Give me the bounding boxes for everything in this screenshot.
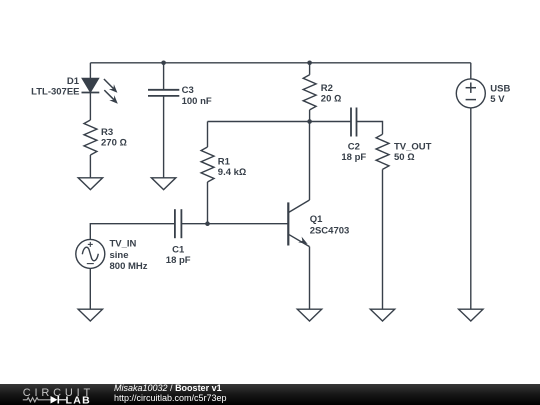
svg-text:270 Ω: 270 Ω	[101, 137, 127, 148]
wire mid rail	[208, 121, 352, 123]
svg-text:D1: D1	[67, 76, 80, 87]
LED emission arrow 2	[104, 90, 114, 100]
svg-text:R1: R1	[218, 156, 231, 167]
capacitor C1	[175, 209, 182, 238]
svg-text:5 V: 5 V	[490, 94, 505, 105]
resistor TV_OUT	[376, 134, 389, 169]
capacitor C2	[351, 108, 357, 137]
CircuitLab logo	[0, 384, 100, 405]
wire top rail corner to USB	[470, 63, 472, 79]
wire R1 bottom lead	[207, 182, 209, 224]
svg-text:C2: C2	[348, 141, 360, 152]
wire LED anode	[89, 63, 91, 79]
ground below R3	[78, 178, 102, 190]
svg-text:LAB: LAB	[66, 395, 91, 405]
resistor R3	[84, 120, 97, 155]
resistor R2	[303, 75, 316, 110]
svg-text:USB: USB	[490, 83, 510, 94]
svg-text:2SC4703: 2SC4703	[310, 226, 350, 237]
wire top rail	[90, 62, 470, 64]
svg-text:R3: R3	[101, 127, 113, 138]
wire TV_IN top lead	[90, 224, 174, 240]
wire C1 to Q1 base	[181, 223, 288, 225]
wire collector	[309, 122, 311, 201]
svg-text:C3: C3	[182, 85, 194, 96]
svg-text:TV_OUT: TV_OUT	[394, 141, 432, 152]
svg-text:100 nF: 100 nF	[182, 96, 212, 107]
footer bar	[0, 384, 540, 405]
svg-text:Q1: Q1	[310, 214, 323, 225]
wire TV_IN to ground	[89, 268, 91, 309]
svg-text:800 MHz: 800 MHz	[110, 261, 148, 272]
svg-text:18 pF: 18 pF	[341, 152, 366, 163]
voltage source USB	[456, 79, 485, 108]
svg-text:TV_IN: TV_IN	[110, 239, 137, 250]
svg-text:18 pF: 18 pF	[166, 255, 191, 266]
sine wave in TV_IN	[82, 247, 98, 261]
wire R2 top lead	[309, 63, 311, 75]
resistor R1	[201, 147, 214, 182]
diode D1 (LED)	[82, 61, 312, 245]
transistor Q1	[287, 202, 289, 245]
svg-text:20 Ω: 20 Ω	[321, 94, 342, 105]
wire R2 bottom lead	[309, 110, 311, 122]
svg-text:sine: sine	[110, 250, 129, 261]
svg-text:R2: R2	[321, 83, 333, 94]
svg-text:LTL-307EE: LTL-307EE	[31, 86, 79, 97]
wire LED cathode to R3	[89, 93, 91, 121]
ground below TV_IN	[78, 309, 102, 321]
source TV_IN	[76, 239, 105, 268]
ground below C3	[151, 178, 175, 190]
LED emission arrow 1	[104, 79, 118, 104]
ground below USB	[459, 309, 483, 321]
node junction dots	[161, 61, 166, 66]
emitter arrow Q1	[298, 237, 307, 244]
ground below Q1	[297, 309, 321, 321]
wire C3 to ground	[163, 96, 165, 178]
wire C3 drop	[163, 63, 165, 90]
capacitor C3	[148, 90, 179, 96]
wire R3 to ground	[89, 155, 91, 178]
wire C2 to TV_OUT corner	[357, 122, 383, 135]
wire USB to ground	[470, 108, 472, 309]
wire TV_OUT to ground	[382, 169, 384, 309]
svg-text:C1: C1	[172, 244, 185, 255]
ground below TV_OUT	[370, 309, 394, 321]
wire R1 top lead	[207, 122, 209, 148]
svg-text:50 Ω: 50 Ω	[394, 152, 415, 163]
svg-text:9.4 kΩ: 9.4 kΩ	[218, 167, 246, 178]
wire emitter to ground	[309, 247, 311, 310]
